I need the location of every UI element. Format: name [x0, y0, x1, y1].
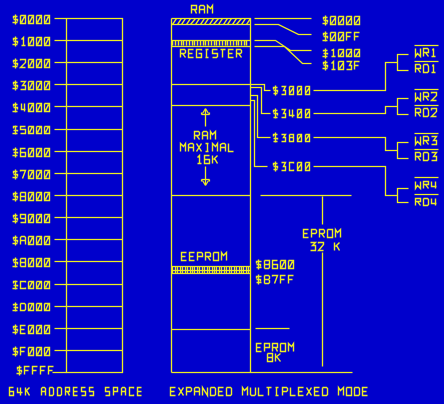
label $3000 [13, 81, 50, 91]
label $D000 [13, 303, 50, 312]
label WR4 [416, 182, 437, 189]
eprom 8K top line [256, 328, 290, 330]
label $4000 [13, 103, 50, 113]
label $7000 [13, 170, 50, 180]
eeprom band vertical hatch [173, 267, 249, 274]
label $E000 [13, 325, 50, 335]
address tick wires [53, 19, 67, 373]
label $1000 (callout) [323, 49, 360, 59]
RAM band bottom line [172, 24, 251, 26]
label $3000 [274, 86, 310, 96]
label 8K [268, 354, 281, 362]
strobe bracket 4 [398, 189, 409, 203]
label $FFFF [17, 366, 54, 376]
overline RD4 [415, 194, 439, 196]
label $B000 [13, 258, 50, 268]
label $5000 [13, 126, 50, 135]
label $3400 [274, 109, 310, 119]
eprom 32K top line [261, 195, 352, 197]
wire $0000 leader [255, 18, 312, 20]
label WR3 [416, 137, 437, 145]
label $1000 [13, 37, 50, 47]
label $00FF (callout) [323, 32, 360, 42]
label 32 K [311, 243, 340, 251]
label MAXIMAL [181, 144, 234, 152]
label $0000 (callout) [323, 16, 360, 26]
expanded column bottom line (extends right) [172, 372, 353, 374]
overline RD3 [415, 149, 439, 151]
strobe bracket 1 [398, 55, 409, 71]
label $B600 [257, 260, 294, 270]
overline WR1 [415, 45, 439, 47]
label $6000 [13, 148, 50, 158]
register band vertical hatch [173, 41, 247, 46]
wire $3400 tap [251, 88, 271, 114]
label EEPROM [182, 253, 227, 261]
wire $3C00 to strobe pair [314, 167, 398, 196]
eeprom band horizontal lines [172, 267, 251, 274]
expanded column left edge [171, 19, 173, 373]
label $2000 [13, 59, 50, 69]
label RD3 [416, 153, 437, 161]
register band top/bottom lines [172, 41, 251, 47]
label $F000 [13, 347, 50, 357]
title RAM [192, 6, 213, 14]
label $3800 [274, 133, 310, 143]
label EPROM (32K) [304, 230, 341, 238]
RAM band diagonal hatch [173, 19, 251, 25]
label $3C00 [274, 162, 310, 172]
label RD2 [416, 109, 437, 117]
wire $3000 to strobe pair [314, 63, 398, 91]
divider $4000 [172, 105, 251, 107]
dimension arrow shafts [205, 110, 207, 185]
divider $3000 [172, 84, 251, 86]
eprom 32K vertical wire [322, 197, 324, 367]
wire $3400 to strobe pair [314, 107, 398, 114]
divider $8000 [172, 195, 251, 197]
caption 64K ADDRESS SPACE [10, 388, 142, 396]
label RD4 [416, 199, 437, 206]
64K address-space column box [67, 19, 123, 373]
label $8000 [13, 192, 50, 202]
label $B7FF [257, 275, 294, 285]
overline WR2 [415, 89, 439, 91]
label $C000 [13, 281, 50, 290]
wire $103F leader [255, 47, 312, 64]
label WR2 [416, 93, 437, 101]
overline RD2 [415, 105, 439, 107]
wire $3000 tap [251, 85, 271, 91]
label WR1 [416, 49, 436, 57]
label $9000 [13, 214, 50, 224]
strobe bracket 3 [398, 143, 409, 159]
label $103F (callout) [323, 61, 360, 71]
expanded column box [172, 19, 251, 373]
overline WR3 [415, 133, 439, 135]
label 16K [198, 156, 218, 164]
overline WR4 [415, 177, 439, 179]
label RAM (maximal) [195, 132, 216, 140]
caption EXPANDED MULTIPLEXED MODE [171, 388, 368, 396]
divider $E000 [172, 329, 251, 331]
arrowhead down [202, 180, 210, 186]
wire $00FF leader [255, 25, 312, 35]
label $0000 [13, 15, 50, 25]
wire $3C00 tap [251, 101, 268, 167]
arrowhead up [202, 109, 210, 115]
label EPROM (8K) [257, 344, 294, 352]
wire $1000 leader [255, 41, 312, 51]
label RD1 [416, 65, 436, 73]
wire $3800 tap [251, 96, 271, 138]
strobe bracket 2 [398, 99, 409, 115]
label REGISTER [181, 50, 242, 58]
wire $3800 to strobe pair [314, 138, 398, 151]
label $A000 [13, 236, 50, 246]
overline RD1 [415, 61, 439, 63]
column $1000 dividers [67, 41, 123, 351]
